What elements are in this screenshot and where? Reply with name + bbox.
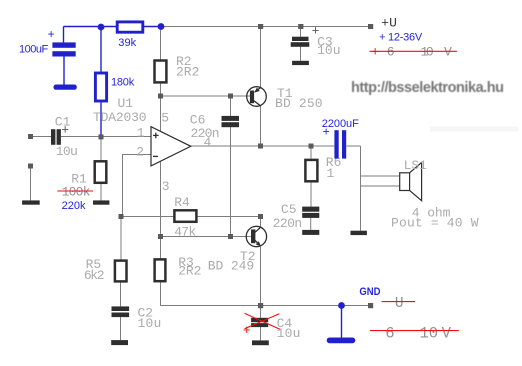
svg-text:+U: +U	[381, 16, 397, 31]
svg-text:10: 10	[420, 325, 439, 343]
strikethrough line (bottom voltage)	[370, 330, 459, 332]
capacitor C5	[302, 207, 319, 218]
wire pin5	[160, 96, 162, 132]
wire input to C1	[33, 136, 51, 138]
svg-text:39k: 39k	[118, 37, 136, 49]
svg-text:100k: 100k	[62, 184, 91, 199]
node T1 rail junction	[258, 24, 263, 29]
wire C3 bottom	[300, 47, 302, 61]
ground C3	[292, 61, 309, 65]
svg-text:180k: 180k	[111, 76, 135, 88]
wire speaker bottom terminal	[361, 185, 400, 187]
watermark ghost streak	[430, 127, 518, 132]
wire speaker column down	[360, 146, 362, 231]
wire R6 top	[310, 146, 312, 159]
svg-text:+: +	[371, 44, 379, 59]
node R4/T2-collector junction	[258, 214, 263, 219]
node B (blue junction 39k right)	[158, 23, 165, 30]
svg-text:+ 12-36V: + 12-36V	[379, 31, 423, 43]
svg-text:100uF: 100uF	[19, 44, 48, 56]
wire R6 to C5	[310, 182, 312, 206]
svg-text:2: 2	[136, 145, 144, 160]
ground R1 (bar)	[93, 200, 109, 204]
wire GND row	[261, 305, 369, 307]
wire R5 top	[120, 217, 122, 260]
wire R1 top	[100, 137, 102, 160]
resistor 39k (blue)	[117, 22, 143, 32]
capacitor C6	[222, 116, 240, 127]
svg-text:C5: C5	[281, 202, 297, 217]
wire R2 top	[160, 27, 162, 60]
resistor R3	[155, 259, 166, 281]
svg-text:10u: 10u	[317, 43, 340, 58]
svg-text:47k: 47k	[174, 225, 196, 240]
svg-text:+: +	[243, 323, 251, 338]
resistor 180k (blue)	[95, 73, 106, 101]
strikethrough line (100k)	[57, 190, 93, 192]
wire 180k top	[100, 27, 102, 72]
op-amp U1	[151, 127, 191, 166]
svg-text:BD 249: BD 249	[208, 259, 255, 274]
svg-text:1: 1	[327, 166, 335, 181]
wire T2 emitter down	[260, 247, 262, 306]
node C3 rail junction	[298, 24, 303, 29]
svg-text:220n: 220n	[191, 126, 220, 141]
wire top rail gray	[161, 26, 371, 28]
node C6 top junction	[228, 94, 233, 99]
node R2/T1-base junction	[158, 94, 163, 99]
wire T2 collector up	[260, 217, 262, 227]
wire pin2	[123, 155, 152, 217]
wire C5 bottom	[310, 218, 312, 230]
wire C4 bottom	[260, 327, 262, 340]
wire speaker top terminal	[361, 175, 400, 177]
svg-text:2R2: 2R2	[178, 264, 201, 279]
svg-text:http://bsselektronika.hu: http://bsselektronika.hu	[351, 80, 504, 96]
wire R5 to C2	[120, 282, 122, 306]
capacitor 2200uF (blue)	[334, 130, 346, 158]
wire T1 collector down	[260, 106, 262, 146]
ground GND (blue bar)	[327, 338, 356, 344]
wire T1 emitter to rail	[260, 27, 262, 88]
transistor T1	[247, 87, 267, 107]
wire R2 bottom	[160, 84, 162, 97]
speaker LS1	[400, 162, 422, 200]
wire C2 bottom	[120, 317, 122, 340]
terminal input ground	[28, 164, 33, 169]
svg-text:Pout = 40 W: Pout = 40 W	[391, 215, 479, 230]
resistor R5	[115, 261, 127, 282]
svg-text:BD 250: BD 250	[275, 96, 323, 111]
wire GND blue vertical	[341, 306, 343, 339]
svg-text:LS1: LS1	[404, 158, 427, 173]
ground speaker	[351, 231, 367, 235]
node output junction	[258, 144, 263, 149]
svg-text:220k: 220k	[62, 200, 86, 212]
capacitor C1	[51, 129, 61, 145]
terminal GND	[368, 303, 373, 308]
wire C6 top	[230, 96, 232, 116]
wire blue rail right of 39k	[144, 26, 162, 28]
svg-text:10u: 10u	[277, 326, 301, 341]
wire 2200uF to speaker column	[346, 145, 360, 147]
wire 47k to T2 base	[161, 236, 251, 238]
wire R1 bottom	[100, 184, 102, 201]
strikethrough line (U)	[382, 301, 416, 303]
ground 100uF (blue bar)	[54, 85, 77, 90]
wire R3 bottom corner	[161, 282, 261, 306]
wire R4 left	[123, 216, 175, 218]
wire 180k bottom	[100, 102, 102, 135]
terminal input signal	[28, 134, 33, 139]
capacitor C4 (crossed out)	[251, 318, 268, 327]
svg-text:+: +	[323, 124, 330, 138]
wire 100uF bottom	[63, 57, 65, 85]
svg-text:1: 1	[137, 125, 145, 140]
wire C4 top	[260, 306, 262, 318]
node R6 junction	[309, 144, 314, 149]
svg-text:6: 6	[385, 325, 394, 343]
ground C2	[111, 340, 128, 345]
wire C6 bottom	[230, 127, 232, 237]
node pin3/47k junction	[158, 234, 163, 239]
capacitor C3	[291, 37, 310, 47]
svg-text:3: 3	[162, 179, 170, 194]
svg-text:10: 10	[421, 44, 434, 59]
svg-text:6: 6	[387, 44, 395, 59]
red X over C4	[245, 313, 280, 329]
svg-text:V: V	[444, 44, 452, 59]
wire blue rail left	[64, 26, 117, 28]
wire T1 base	[161, 95, 251, 97]
node C1/R1 junction	[99, 134, 104, 139]
svg-text:R4: R4	[174, 195, 190, 210]
transistor T2	[246, 226, 266, 246]
strikethrough line (old voltage)	[370, 50, 457, 52]
wire pin3 down through R3	[160, 162, 162, 259]
terminal +U	[368, 24, 373, 29]
svg-text:+: +	[61, 122, 69, 137]
node C4/GND junction	[258, 303, 263, 308]
wire R4 right	[198, 216, 261, 218]
resistor R1	[95, 161, 107, 183]
svg-text:5: 5	[161, 111, 169, 126]
wire 100uF top	[63, 27, 65, 43]
wire output	[191, 145, 334, 147]
capacitor 100uF	[52, 42, 75, 56]
svg-text:220n: 220n	[273, 216, 303, 231]
svg-text:10u: 10u	[138, 316, 162, 331]
wire C1 to pin1	[61, 136, 151, 138]
capacitor C2	[112, 306, 130, 317]
node GND blue dot	[338, 302, 345, 309]
svg-text:TDA2030: TDA2030	[93, 110, 147, 125]
svg-text:6k2: 6k2	[84, 268, 105, 283]
svg-text:2R2: 2R2	[176, 64, 199, 79]
wire input ground	[30, 166, 32, 200]
ground input (bar)	[22, 200, 40, 204]
wire C3 top	[300, 27, 302, 38]
node C6/47k junction	[228, 234, 233, 239]
svg-text:U1: U1	[118, 96, 134, 111]
svg-text:U: U	[395, 296, 404, 312]
resistor R6	[305, 160, 317, 181]
svg-text:+: +	[48, 27, 55, 41]
ground C4	[252, 340, 269, 345]
svg-text:V: V	[442, 325, 452, 343]
ground C5	[302, 230, 319, 235]
svg-text:GND: GND	[359, 286, 380, 298]
resistor R4	[174, 210, 196, 222]
node feedback junction (pin2/R4/R5)	[119, 214, 124, 219]
svg-text:10u: 10u	[56, 144, 78, 159]
resistor R2	[155, 61, 167, 83]
node A (blue junction 100uF/180k)	[98, 24, 105, 31]
